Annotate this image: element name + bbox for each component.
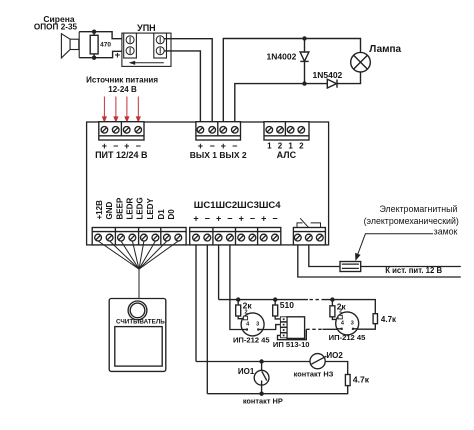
svg-text:2: 2 [299, 142, 304, 151]
terminal block ПИТ 12/24 В [99, 122, 144, 140]
svg-text:+: + [261, 214, 266, 224]
svg-text:+: + [216, 214, 221, 224]
УПН direction arrow [129, 61, 164, 65]
wire detector bus dashed [310, 299, 323, 301]
wire detector bus solid left [219, 299, 308, 301]
svg-text:АЛС: АЛС [277, 150, 297, 160]
resistor R5 4.7к [373, 314, 377, 324]
svg-text:+: + [239, 214, 244, 224]
svg-text:ШС1ШС2ШС3ШС4: ШС1ШС2ШС3ШС4 [194, 200, 281, 211]
label siren Сирена ОПОП 2-35 [34, 14, 78, 32]
wire contact loop bottom [207, 386, 347, 394]
terminal block reader interface [92, 228, 186, 245]
call point ИП 513-10 [280, 317, 304, 339]
labels ПИТ polarity + - + - [102, 141, 141, 151]
wire bundle reader to СЧИТЫВАТЕЛЬ [98, 241, 178, 299]
svg-text:LEDG: LEDG [136, 197, 145, 219]
junction node ИО1 bottom [259, 392, 263, 396]
wire ШС2+ down to detector bus [218, 245, 220, 300]
svg-text:D1: D1 [157, 209, 166, 220]
svg-text:(электромеханический): (электромеханический) [364, 216, 459, 226]
wire to detector 2 pin 4 [323, 328, 338, 330]
labels ШС polarity row [193, 214, 277, 224]
УПН module U1 body [122, 33, 171, 66]
terminal block ШС1-ШС4 [190, 228, 281, 245]
svg-text:УПН: УПН [137, 23, 156, 33]
svg-text:ОПОП 2-35: ОПОП 2-35 [34, 23, 78, 32]
main control panel board [87, 122, 329, 245]
svg-text:D0: D0 [167, 209, 176, 220]
contact ИО2 [310, 354, 326, 369]
svg-text:ИП-212 45: ИП-212 45 [233, 336, 270, 345]
junction node lamp minus [302, 81, 306, 85]
svg-text:2: 2 [278, 142, 283, 151]
svg-text:4.7к: 4.7к [381, 315, 397, 324]
svg-text:470: 470 [100, 41, 111, 48]
svg-text:510: 510 [280, 300, 294, 310]
svg-text:LEDY: LEDY [146, 198, 155, 220]
svg-text:контакт НР: контакт НР [243, 396, 283, 405]
junction node bus R4 [330, 297, 334, 301]
svg-text:ИП 513-10: ИП 513-10 [273, 340, 310, 349]
wire siren bottom to УПН [79, 51, 122, 57]
label power supply Источник питания 12-24 В [86, 76, 158, 94]
wire dashed to detector 2 [306, 328, 322, 330]
resistor R4 2к [330, 300, 338, 320]
svg-text:+12B: +12B [95, 200, 104, 220]
svg-text:2: 2 [244, 310, 247, 316]
wire lock to supply plus [361, 266, 461, 268]
svg-text:ПИТ 12/24 В: ПИТ 12/24 В [95, 150, 148, 160]
svg-text:−: − [250, 214, 255, 224]
svg-text:−: − [205, 214, 210, 224]
wire ШС1+ down to contact loop [195, 245, 197, 362]
wire detector 1 pin 3 to ИП513 pin 2 [263, 325, 281, 330]
junction node siren top [92, 30, 96, 34]
smoke detector ИП-212 45 no.1 [241, 313, 264, 336]
contact ИО1 [254, 362, 269, 394]
svg-text:Электромагнитный: Электромагнитный [380, 204, 458, 214]
relay output terminal block K1 [293, 228, 325, 245]
junction node bus R3 [273, 297, 277, 301]
diode VD2 1N5402 [327, 79, 337, 88]
svg-text:1N4002: 1N4002 [267, 51, 297, 61]
power supply red arrows [102, 97, 141, 125]
svg-text:−: − [272, 214, 277, 224]
resistor R6 4.7к [345, 375, 350, 386]
svg-text:К ист. пит. 12 В: К ист. пит. 12 В [385, 266, 442, 275]
wire siren top to УПН [79, 32, 122, 39]
svg-text:LEDR: LEDR [126, 198, 135, 220]
wire diode to lamp bottom [337, 72, 361, 84]
detector 1 pin numbers 2 4 3 [244, 310, 259, 328]
svg-text:ИП-212 45: ИП-212 45 [329, 333, 366, 342]
terminal block АЛС [264, 122, 309, 140]
wire УПН out top to ВЫХ1- [164, 39, 212, 127]
labels reader pin names +12B GND BEEP LEDR LEDG LEDY D1 D0 [95, 197, 176, 219]
reader box СЧИТЫВАТЕЛЬ [109, 299, 166, 372]
svg-text:ИО2: ИО2 [326, 351, 343, 360]
wire УПН out bottom to ВЫХ1+ [164, 51, 200, 127]
wire ШС1- down to contact loop return [206, 245, 208, 394]
svg-text:3: 3 [256, 321, 259, 327]
wire ШС2- down to detector 1 [230, 245, 243, 330]
svg-text:Источник питания: Источник питания [86, 76, 158, 85]
wire detector bus right to 4.7к [323, 300, 376, 314]
wire contact loop top [196, 362, 348, 375]
arrow label to lock [355, 234, 433, 261]
junction node ИО1 top [259, 359, 263, 363]
svg-text:GND: GND [105, 202, 114, 220]
wire relay COM to lock [309, 245, 340, 267]
detector 2 pin numbers 2 4 3 [339, 309, 354, 327]
wire ВЫХ2- to diode row [235, 84, 327, 127]
svg-text:+: + [193, 214, 198, 224]
svg-text:1N5402: 1N5402 [313, 70, 343, 80]
svg-text:4.7к: 4.7к [353, 374, 370, 384]
svg-text:ИО1: ИО1 [238, 367, 255, 376]
wire ИП513 pin 4 under loop [278, 329, 307, 339]
svg-text:контакт НЗ: контакт НЗ [294, 370, 334, 379]
svg-text:ВЫХ 1 ВЫХ 2: ВЫХ 1 ВЫХ 2 [190, 150, 247, 160]
siren speaker LS1 [61, 32, 79, 58]
wire relay NO to supply minus [298, 245, 461, 277]
junction node bus R2 [236, 297, 240, 301]
svg-text:2: 2 [339, 309, 342, 315]
junction node lamp plus [302, 36, 306, 40]
resistor R3 510 [273, 300, 281, 319]
wire 4.7к to detector 2 pin 3 [357, 324, 375, 330]
terminal block ВЫХ 1 ВЫХ 2 [196, 122, 241, 140]
svg-text:1: 1 [288, 142, 293, 151]
svg-text:замок: замок [434, 227, 458, 237]
diode VD1 1N4002 [300, 39, 309, 84]
svg-text:12-24 В: 12-24 В [108, 85, 137, 94]
smoke detector ИП-212 45 no.2 [336, 312, 359, 335]
junction node siren bottom [92, 56, 96, 60]
svg-text:3: 3 [351, 320, 354, 326]
relay contact symbol [297, 218, 321, 227]
svg-text:−: − [227, 214, 232, 224]
svg-text:Лампа: Лампа [369, 44, 401, 55]
wire ВЫХ2+ to lamp top [223, 39, 360, 128]
svg-text:BEEP: BEEP [115, 197, 124, 219]
label Электромагнитный замок [364, 204, 459, 236]
svg-text:+: + [115, 50, 121, 61]
svg-text:1: 1 [267, 142, 272, 151]
УПН terminal screws [126, 36, 164, 55]
resistor R1 470 [90, 32, 98, 58]
svg-text:СЧИТЫВАТЕЛЬ: СЧИТЫВАТЕЛЬ [116, 318, 165, 325]
labels АЛС pins 1 2 1 2 [267, 142, 304, 151]
lamp HL1 [351, 52, 371, 72]
resistor R2 2к [236, 300, 244, 319]
electromagnetic lock [340, 262, 361, 272]
labels ВЫХ polarity + - + - [198, 141, 238, 151]
